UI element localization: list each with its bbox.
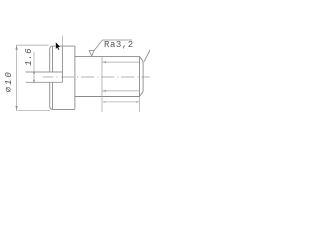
svg-text:Ra3,2: Ra3,2: [104, 40, 134, 50]
svg-text:1.6: 1.6: [24, 48, 34, 66]
svg-text:⌀10: ⌀10: [4, 70, 14, 92]
